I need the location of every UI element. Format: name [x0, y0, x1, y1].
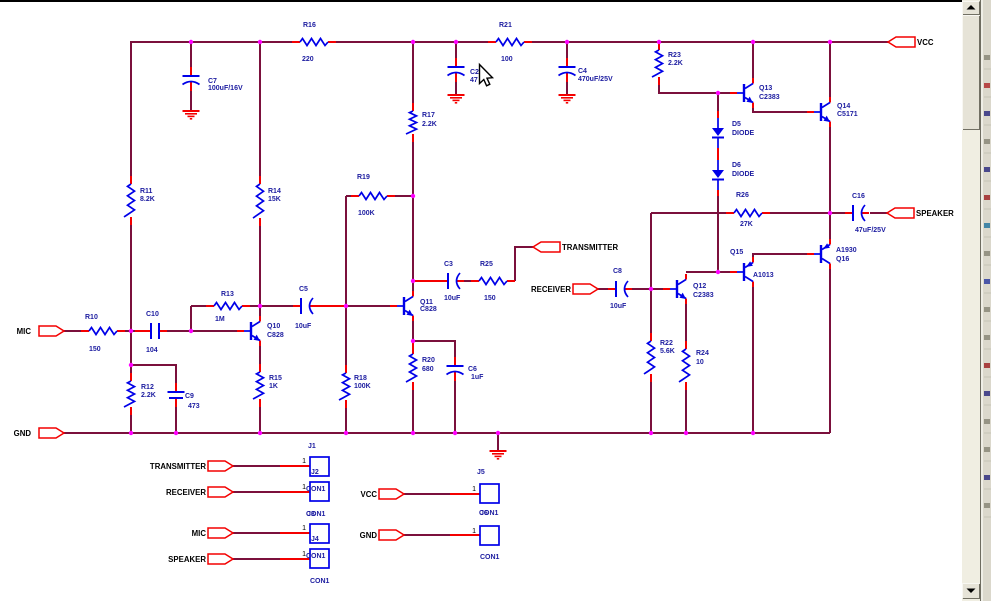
junction C16 node	[828, 211, 832, 215]
svg-text:C2383: C2383	[693, 292, 714, 299]
svg-text:CON1: CON1	[306, 511, 326, 518]
wire left rail middle	[130, 225, 132, 373]
svg-text:J4: J4	[311, 536, 319, 543]
junction rail R15	[258, 431, 262, 435]
junction rail C6	[453, 431, 457, 435]
resistor R10	[81, 314, 125, 353]
port VCC J	[360, 489, 404, 499]
capacitor C3	[440, 261, 464, 302]
svg-text:R15: R15	[269, 375, 282, 382]
ground at C7	[183, 111, 200, 119]
capacitor C9	[168, 383, 200, 410]
pin stub	[280, 465, 310, 467]
wire Q13 collector drop	[752, 42, 754, 78]
wire left rail lower	[130, 415, 132, 433]
svg-text:Q12: Q12	[693, 283, 706, 290]
svg-text:C3: C3	[444, 261, 453, 268]
junction D5 top	[716, 91, 720, 95]
port MIC	[17, 326, 64, 336]
svg-text:1: 1	[472, 528, 476, 535]
connector J5 box	[480, 484, 499, 503]
wire Q11 emitter to R20	[412, 321, 414, 341]
wire top rail right segment	[532, 41, 888, 43]
svg-text:Q14: Q14	[837, 103, 850, 110]
wire RECEIVER to C8	[598, 288, 608, 290]
svg-text:1: 1	[302, 551, 306, 558]
wire branch to C6	[413, 341, 455, 357]
wire D6 to Q15 base line	[717, 196, 719, 272]
wire C4 ground stem	[566, 82, 568, 94]
svg-text:R19: R19	[357, 174, 370, 181]
resistor R25	[471, 261, 515, 302]
wire R20 top pin (red)	[412, 340, 414, 347]
svg-text:CON1: CON1	[479, 510, 499, 517]
capacitor C8	[608, 268, 632, 310]
svg-text:R25: R25	[480, 261, 493, 268]
svg-text:Q15: Q15	[730, 249, 743, 256]
capacitor C7	[183, 67, 243, 92]
junction R23 tap	[657, 40, 661, 44]
pin stub	[280, 491, 310, 493]
wire Q12 collector to Q15 base	[686, 271, 730, 273]
svg-text:150: 150	[484, 295, 496, 302]
wire R25 to TRANSMITTER port	[515, 247, 533, 281]
svg-text:680: 680	[422, 366, 434, 373]
svg-text:C8: C8	[613, 268, 622, 275]
wire C5 to Q11 base	[345, 305, 390, 307]
wire C2 ground stem	[455, 82, 457, 94]
wire R14 top wire	[259, 42, 261, 176]
junction Q13 tap	[751, 40, 755, 44]
resistor R26	[726, 192, 770, 228]
junction C9 branch	[129, 363, 133, 367]
svg-text:C828: C828	[420, 306, 437, 313]
junction Q15 base node	[716, 270, 720, 274]
pin stub	[450, 534, 480, 536]
wire Q16 collector riser	[829, 269, 831, 433]
wire R19 right wire	[395, 195, 413, 197]
diode D5	[712, 111, 755, 154]
port RECEIVER J	[166, 487, 233, 497]
resistor R21	[488, 22, 532, 63]
svg-text:1K: 1K	[269, 383, 278, 390]
junction Q14 tap	[828, 40, 832, 44]
wire C7 ground stem	[190, 91, 192, 110]
wire C9 branch	[131, 365, 176, 383]
junction R19 right	[411, 194, 415, 198]
svg-text:8.2K: 8.2K	[140, 196, 155, 203]
junction rail R22	[649, 431, 653, 435]
wire C7 drop	[190, 42, 192, 67]
top border line	[0, 0, 962, 2]
wire Q12 emitter to R24	[685, 304, 687, 341]
junction rail R18	[344, 431, 348, 435]
svg-text:10uF: 10uF	[444, 295, 461, 302]
connector J4 box	[310, 524, 329, 543]
junction R14 tap	[258, 40, 262, 44]
junction R20 node	[411, 339, 415, 343]
svg-text:R13: R13	[221, 291, 234, 298]
right toolbar strip	[980, 0, 991, 601]
wire C8 to Q12 base	[632, 288, 663, 290]
svg-text:DIODE: DIODE	[732, 171, 755, 178]
wire R22 to rail	[650, 382, 652, 433]
junction R13-C5 node	[258, 304, 262, 308]
resistor R17	[406, 103, 437, 142]
junction rail Q15	[751, 431, 755, 435]
svg-text:CON1: CON1	[480, 554, 500, 561]
svg-text:C4: C4	[578, 68, 587, 75]
svg-text:SPEAKER: SPEAKER	[168, 555, 206, 564]
capacitor C10	[143, 311, 167, 354]
wire R13 left drop	[190, 306, 192, 331]
svg-text:VCC: VCC	[917, 38, 934, 47]
wire R26 to C16	[770, 212, 830, 214]
svg-text:R14: R14	[268, 188, 281, 195]
wire R18 top wire	[345, 306, 347, 365]
svg-text:R11: R11	[140, 188, 153, 195]
svg-text:47uF/25V: 47uF/25V	[855, 227, 886, 234]
junction C4 tap	[565, 40, 569, 44]
svg-text:R16: R16	[303, 22, 316, 29]
svg-text:1: 1	[302, 458, 306, 465]
svg-text:MIC: MIC	[17, 327, 32, 336]
resistor R14	[253, 176, 281, 226]
svg-text:C5171: C5171	[837, 111, 858, 118]
transistor Q11	[390, 291, 437, 321]
ground at C4	[559, 95, 576, 103]
wire R23 bottom to Q13 base	[659, 85, 730, 93]
pin stub	[280, 558, 310, 560]
svg-text:Q10: Q10	[267, 323, 280, 330]
transistor Q10	[237, 316, 284, 346]
wire TRANSMITTER to J1 box	[233, 465, 281, 467]
resistor R15	[253, 364, 282, 407]
wire top rail left segment	[131, 41, 292, 43]
svg-text:C7: C7	[208, 78, 217, 85]
wire Q13 emitter to Q14 base	[753, 108, 807, 112]
svg-text:1uF: 1uF	[471, 374, 484, 381]
transistor Q15	[730, 249, 774, 287]
mouse cursor	[480, 65, 493, 86]
resistor R22	[644, 333, 675, 382]
svg-text:RECEIVER: RECEIVER	[531, 285, 571, 294]
wire Q10 emitter to R15	[259, 346, 261, 364]
svg-text:R22: R22	[660, 340, 673, 347]
transistor Q14	[807, 97, 858, 127]
svg-text:10: 10	[696, 359, 704, 366]
wire C16 left wire	[830, 212, 846, 214]
wire R19 left drop	[345, 196, 347, 306]
svg-text:CON1: CON1	[306, 553, 326, 560]
junction C7 tap	[189, 40, 193, 44]
capacitor C6	[447, 357, 485, 381]
wire R26 left line	[651, 212, 726, 214]
port MIC J	[192, 528, 233, 538]
wire Q14 collector drop	[829, 42, 831, 97]
svg-text:R23: R23	[668, 52, 681, 59]
junction R13 drop	[189, 329, 193, 333]
svg-text:J1: J1	[308, 443, 316, 450]
junction C5 node	[344, 304, 348, 308]
wire bottom ground rail	[64, 432, 830, 434]
svg-text:100: 100	[501, 56, 513, 63]
wire C5 right pin (red)	[311, 305, 344, 307]
wire GND to J6 box	[404, 534, 451, 536]
wire R26 corner drop	[650, 213, 652, 333]
wire bottom ground stem	[497, 433, 499, 450]
junction rail C9	[174, 431, 178, 435]
svg-text:100uF/16V: 100uF/16V	[208, 85, 243, 92]
wire C9 to rail	[175, 407, 177, 433]
resistor R19	[351, 174, 395, 217]
junction rail R12	[129, 431, 133, 435]
junction C3 node	[411, 279, 415, 283]
vertical scrollbar	[962, 0, 980, 601]
wire C2 drop	[455, 42, 457, 58]
wire Q14 emitter to Q16 emitter	[829, 127, 831, 240]
svg-text:10uF: 10uF	[610, 303, 627, 310]
diode D6	[712, 153, 755, 196]
svg-text:104: 104	[146, 347, 158, 354]
svg-text:A1930: A1930	[836, 247, 857, 254]
svg-text:R21: R21	[499, 22, 512, 29]
wire RECEIVER to J3 box	[233, 491, 281, 493]
junction rail gnd	[496, 431, 500, 435]
wire R18 to rail	[345, 408, 347, 433]
port VCC	[888, 37, 934, 47]
svg-text:150: 150	[89, 346, 101, 353]
svg-text:J2: J2	[311, 469, 319, 476]
svg-text:473: 473	[188, 403, 200, 410]
svg-text:R24: R24	[696, 350, 709, 357]
svg-text:DIODE: DIODE	[732, 130, 755, 137]
svg-text:VCC: VCC	[360, 490, 377, 499]
port GND	[14, 428, 64, 438]
svg-text:R26: R26	[736, 192, 749, 199]
svg-text:C10: C10	[146, 311, 159, 318]
svg-text:Q16: Q16	[836, 256, 849, 263]
junction rail R20	[411, 431, 415, 435]
port SPEAKER	[887, 208, 954, 218]
resistor R13	[206, 291, 250, 323]
resistor R20	[406, 346, 435, 390]
wire C3 left pin (red)	[414, 280, 448, 282]
svg-text:R17: R17	[422, 112, 435, 119]
connector J1 box	[310, 457, 329, 476]
junction MIC line	[129, 329, 133, 333]
svg-text:CON1: CON1	[310, 578, 330, 585]
wire C6 to rail	[454, 381, 456, 433]
port TRANSMITTER J	[150, 461, 233, 471]
resistor R18	[339, 365, 371, 408]
svg-text:Q11: Q11	[420, 299, 433, 306]
wire C4 drop	[566, 42, 568, 58]
junction R17 tap	[411, 40, 415, 44]
svg-text:27K: 27K	[740, 221, 753, 228]
port SPEAKER J	[168, 554, 233, 564]
resistor R11	[124, 176, 155, 225]
svg-text:2.2K: 2.2K	[141, 392, 156, 399]
transistor Q12	[663, 274, 714, 304]
port GND J	[360, 530, 404, 540]
pin stub	[450, 493, 480, 495]
svg-text:5.6K: 5.6K	[660, 348, 675, 355]
wire R20 to rail	[412, 390, 414, 433]
junction rail R24	[684, 431, 688, 435]
svg-text:470uF/25V: 470uF/25V	[578, 76, 613, 83]
ground at bottom rail	[490, 451, 507, 459]
svg-text:1: 1	[302, 484, 306, 491]
ground at C2	[448, 95, 465, 103]
wire R24 to rail	[685, 390, 687, 433]
pin stub	[280, 532, 310, 534]
resistor R16	[292, 22, 336, 63]
port TRANSMITTER mid	[533, 242, 618, 252]
capacitor C5	[293, 286, 317, 330]
svg-text:2.2K: 2.2K	[422, 121, 437, 128]
svg-text:TRANSMITTER: TRANSMITTER	[562, 243, 618, 252]
port RECEIVER mid	[531, 284, 598, 294]
svg-text:D6: D6	[732, 162, 741, 169]
resistor R23	[652, 42, 683, 85]
wire SPEAKER to J box	[233, 558, 281, 560]
svg-text:100K: 100K	[354, 383, 371, 390]
svg-text:100K: 100K	[358, 210, 375, 217]
svg-text:GND: GND	[14, 429, 32, 438]
svg-text:R10: R10	[85, 314, 98, 321]
svg-text:R12: R12	[141, 384, 154, 391]
capacitor C16	[845, 193, 886, 234]
svg-text:C2383: C2383	[759, 94, 780, 101]
svg-text:1: 1	[472, 486, 476, 493]
wire R14 to Q10 collector	[259, 226, 261, 316]
connector SPEAKER box	[310, 549, 329, 568]
wire R17 top wire	[412, 42, 414, 103]
svg-text:C9: C9	[185, 393, 194, 400]
wire top rail middle segment	[336, 41, 488, 43]
wire Q15 collector to rail	[752, 287, 754, 433]
resistor R24	[679, 341, 709, 390]
wire left rail upper	[130, 41, 132, 176]
svg-text:C6: C6	[468, 366, 477, 373]
wire R15 to rail	[259, 407, 261, 433]
junction Q12 base node	[649, 287, 653, 291]
svg-text:CON1: CON1	[306, 486, 326, 493]
svg-text:R18: R18	[354, 375, 367, 382]
svg-text:1M: 1M	[215, 316, 225, 323]
capacitor C2	[448, 58, 480, 84]
svg-text:J5: J5	[477, 469, 485, 476]
svg-text:220: 220	[302, 56, 314, 63]
capacitor C4	[559, 58, 613, 83]
wire R13 to C5	[250, 305, 294, 307]
svg-text:MIC: MIC	[192, 529, 207, 538]
junction C2 tap	[454, 40, 458, 44]
wire C10 to Q10 base	[167, 330, 237, 332]
svg-text:47: 47	[470, 77, 478, 84]
svg-text:SPEAKER: SPEAKER	[916, 209, 954, 218]
wire D5 top wire	[717, 93, 719, 112]
svg-text:TRANSMITTER: TRANSMITTER	[150, 462, 206, 471]
wire C16 to SPEAKER	[870, 212, 887, 214]
wire MIC to R10	[64, 330, 81, 332]
svg-text:Q13: Q13	[759, 85, 772, 92]
svg-text:C5: C5	[299, 286, 308, 293]
wire VCC to J5 box	[404, 493, 451, 495]
transistor	[807, 239, 830, 269]
svg-text:D5: D5	[732, 121, 741, 128]
svg-text:RECEIVER: RECEIVER	[166, 488, 206, 497]
svg-text:1: 1	[302, 525, 306, 532]
svg-text:GND: GND	[360, 531, 378, 540]
wire R10 to C10	[125, 330, 136, 332]
svg-text:R20: R20	[422, 357, 435, 364]
svg-text:10uF: 10uF	[295, 323, 312, 330]
svg-text:C828: C828	[267, 332, 284, 339]
transistor Q13	[730, 78, 780, 108]
wire R17 to Q11 collector	[412, 142, 414, 291]
wire C3 to R25	[464, 280, 471, 282]
connector J6 box	[480, 526, 499, 545]
svg-text:C16: C16	[852, 193, 865, 200]
svg-text:2.2K: 2.2K	[668, 60, 683, 67]
wire R13 left wire	[191, 305, 206, 307]
svg-text:A1013: A1013	[753, 272, 774, 279]
connector J3 box	[310, 482, 329, 501]
wire MIC to J4 box	[233, 532, 281, 534]
resistor R12	[124, 373, 156, 415]
wire C10 left pin (red)	[135, 330, 144, 332]
svg-text:15K: 15K	[268, 196, 281, 203]
wire D5 to D6	[717, 153, 719, 155]
svg-text:C2: C2	[470, 69, 479, 76]
wire Q15 emitter to Q16 base	[753, 254, 807, 258]
wire R19 left stub wire	[346, 195, 351, 197]
